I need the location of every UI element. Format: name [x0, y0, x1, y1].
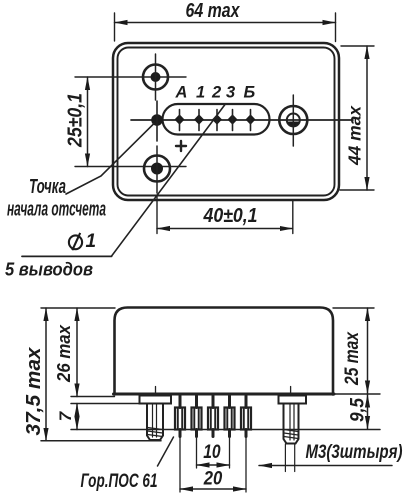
svg-text:37,5 max: 37,5 max	[23, 347, 45, 436]
svg-text:7: 7	[56, 410, 75, 421]
svg-text:10: 10	[203, 441, 221, 463]
svg-text:3: 3	[226, 84, 235, 102]
svg-text:40±0,1: 40±0,1	[203, 205, 258, 227]
svg-text:Гор.ПОС 61: Гор.ПОС 61	[81, 471, 158, 492]
svg-text:Б: Б	[244, 84, 256, 102]
svg-text:44 max: 44 max	[345, 105, 365, 166]
svg-text:64 max: 64 max	[186, 0, 241, 22]
svg-text:5 выводов: 5 выводов	[5, 260, 93, 280]
svg-text:М3(3штыря): М3(3штыря)	[306, 442, 403, 463]
svg-text:А: А	[175, 84, 188, 102]
svg-text:Точка: Точка	[29, 176, 66, 198]
svg-text:9,5: 9,5	[348, 398, 369, 422]
svg-text:1: 1	[196, 84, 205, 102]
svg-text:25 max: 25 max	[342, 331, 363, 386]
svg-text:2: 2	[211, 84, 221, 102]
svg-text:1: 1	[86, 231, 97, 252]
svg-text:26 max: 26 max	[53, 324, 74, 383]
svg-text:20: 20	[203, 468, 222, 490]
svg-text:начала отсчета: начала отсчета	[7, 199, 106, 221]
svg-text:25±0,1: 25±0,1	[65, 93, 87, 148]
